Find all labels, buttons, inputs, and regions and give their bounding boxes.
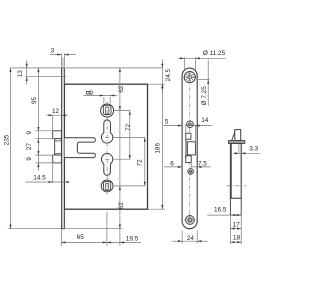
- ext faceplate top full width: [10, 67, 163, 69]
- latch bolt front: [187, 142, 195, 155]
- lock case body (left view): [64, 84, 147, 209]
- centre line on side view: [226, 185, 246, 187]
- svg-text:27: 27: [26, 143, 33, 151]
- dim 13: [26, 60, 28, 84]
- dim 5 and 14: [185, 125, 187, 133]
- faceplate flange side view: [228, 141, 244, 144]
- small hole below latch: [188, 169, 194, 175]
- ext case top to right: [148, 83, 165, 85]
- svg-text:18: 18: [233, 235, 241, 242]
- spindle hole bottom (square follower): [101, 180, 113, 192]
- latch side strip: [185, 139, 186, 158]
- hole centre line h1: [114, 110, 131, 112]
- svg-text:14.5: 14.5: [33, 174, 46, 181]
- dim dia 7.25: [196, 79, 209, 81]
- svg-text:62: 62: [118, 85, 125, 93]
- svg-text:24.5: 24.5: [165, 68, 172, 81]
- svg-text:65: 65: [77, 234, 85, 241]
- dim 6 and 7.5: [164, 166, 182, 168]
- dim 3 of faceplate: [61, 53, 63, 67]
- hole centre line h4: [113, 185, 145, 187]
- faceplate edge view (3mm strip): [62, 57, 65, 228]
- svg-text:24: 24: [187, 235, 195, 242]
- dim 235: [10, 68, 12, 229]
- hole centre line h3: [113, 158, 130, 160]
- svg-text:14: 14: [201, 117, 209, 124]
- svg-text:3.3: 3.3: [249, 146, 258, 153]
- ext faceplate bottom left: [8, 228, 62, 230]
- spindle hole top (square follower): [101, 104, 114, 117]
- dim 16.5: [207, 214, 231, 216]
- svg-text:9: 9: [26, 131, 33, 135]
- euro hole centre ticks: [105, 136, 110, 138]
- svg-text:95: 95: [31, 97, 38, 105]
- svg-text:17: 17: [233, 221, 241, 228]
- dim 12: [52, 115, 54, 130]
- svg-text:9: 9: [89, 90, 93, 97]
- lock body side view upper: [230, 143, 241, 198]
- latch protrusion middle block: [55, 139, 62, 155]
- svg-text:19.5: 19.5: [126, 235, 139, 242]
- svg-text:235: 235: [3, 134, 10, 145]
- ext case bottom to right: [148, 208, 165, 210]
- svg-text:5: 5: [165, 119, 169, 126]
- latch bolt side view with bevel: [235, 130, 241, 141]
- ext faceplate bottom right for 62: [65, 228, 123, 230]
- latch cutout lower square: [186, 156, 191, 163]
- latch cutout upper square: [186, 133, 191, 139]
- svg-text:62: 62: [118, 202, 125, 210]
- svg-text:186: 186: [155, 143, 162, 154]
- top mounting hole: [184, 72, 195, 83]
- dim 62 top / 62 bottom line: [119, 68, 121, 246]
- dim 3.3: [238, 144, 240, 154]
- small hole dia 7.25: [187, 121, 194, 128]
- svg-text:72: 72: [125, 123, 132, 131]
- svg-text:Ø 7.25: Ø 7.25: [201, 86, 208, 106]
- dim 65 and 19.5 bottom: [60, 230, 62, 246]
- latch protrusion lower block: [53, 155, 62, 163]
- hole centre line h2: [113, 136, 145, 138]
- dim 14.5: [52, 164, 54, 183]
- svg-text:12: 12: [52, 108, 60, 115]
- svg-text:9: 9: [26, 157, 33, 161]
- dim square 9: [83, 95, 117, 97]
- euro cylinder hole upper (slot up): [101, 120, 112, 143]
- chain ext lines: [35, 130, 52, 132]
- svg-text:16.5: 16.5: [214, 207, 227, 214]
- bottom mounting hole: [186, 216, 195, 225]
- vertical centre line through holes: [106, 102, 108, 195]
- dim 72 lower: [144, 137, 146, 186]
- svg-text:72: 72: [136, 159, 143, 167]
- lock body side view lower: [230, 198, 241, 215]
- dim 72 upper: [129, 111, 131, 160]
- latch protrusion upper block: [53, 131, 62, 139]
- svg-text:6: 6: [170, 160, 174, 167]
- dim 95 and 9-27-9 chain line: [37, 68, 39, 171]
- dim 18: [230, 241, 242, 243]
- dim dia 11.25: [183, 57, 185, 71]
- dim 17: [229, 216, 231, 244]
- fork catch inside case: [65, 138, 96, 158]
- dim 24.5 and 186 line: [161, 60, 163, 93]
- faceplate front view (stadium): [182, 68, 197, 229]
- svg-text:7.5: 7.5: [198, 160, 207, 167]
- dim 24 bottom: [181, 231, 183, 244]
- svg-text:13: 13: [17, 70, 24, 78]
- svg-text:Ø 11.25: Ø 11.25: [203, 50, 226, 57]
- centre line of faceplate front view: [189, 71, 191, 226]
- dim 13 ext line: [25, 76, 66, 78]
- svg-text:3: 3: [51, 47, 55, 54]
- euro cylinder hole lower (slot down): [101, 154, 112, 176]
